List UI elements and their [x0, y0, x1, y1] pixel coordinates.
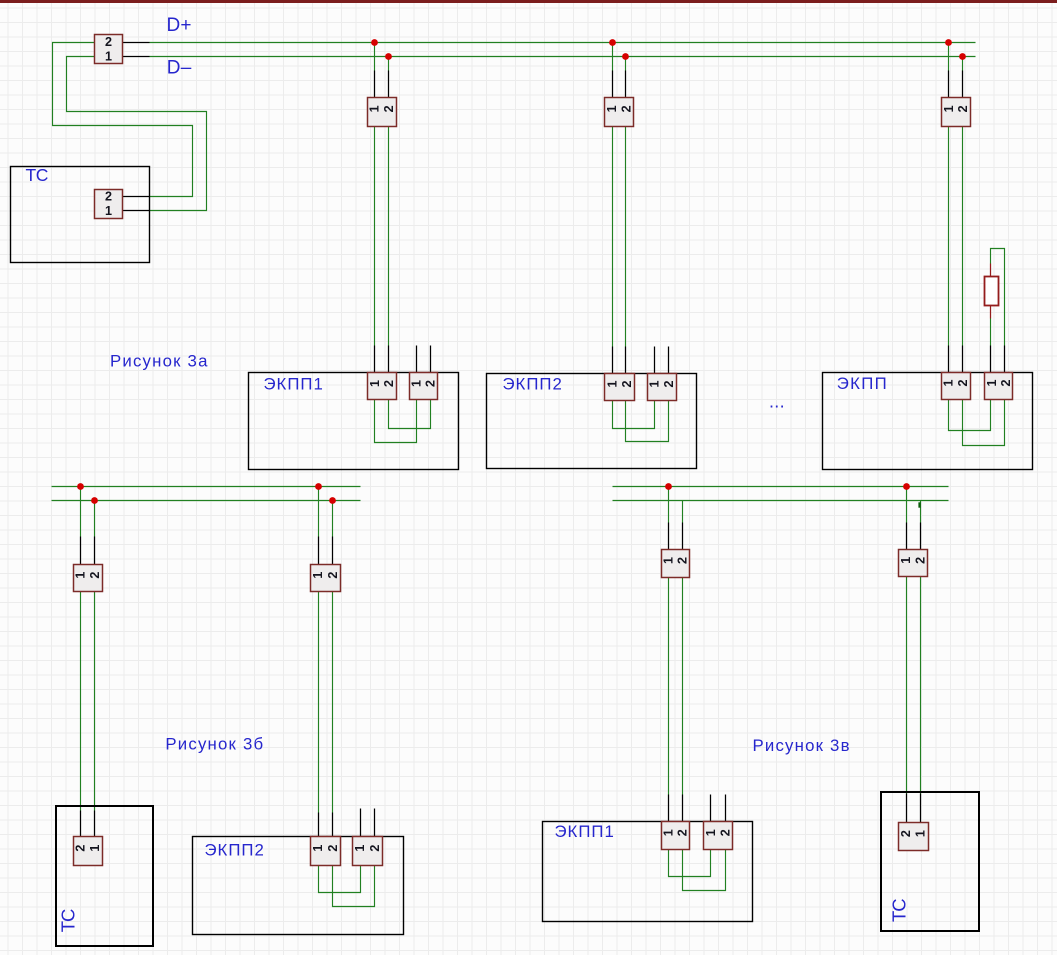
wire EKPP1-3v internal pin1-pin1 [669, 850, 711, 877]
svg-text:1: 1 [941, 379, 955, 386]
wire EKPP2-3b internal pin2-pin2 [333, 866, 375, 907]
stub EKPP1-3v lower pin2 [682, 795, 684, 822]
stub EKPP2-3b XB pin1 (open) [360, 809, 362, 837]
stub TC-3v lower pin2 [920, 794, 922, 823]
svg-text:1: 1 [661, 557, 675, 564]
box TC (figure 3v) [881, 792, 979, 931]
wire TC-3b drop wire1 [80, 487, 82, 537]
wire EKPP2 internal pin1-pin1 [613, 401, 655, 429]
svg-text:1: 1 [368, 380, 382, 387]
svg-text:2: 2 [105, 35, 112, 49]
svg-text:2: 2 [899, 830, 913, 837]
connector X1 (bus head) [95, 35, 123, 64]
connector EKPP2-XA inline [605, 98, 634, 127]
connector TC-3b connector [74, 837, 103, 866]
svg-text:1: 1 [899, 557, 913, 564]
connector EKPP1-3v XB [704, 822, 733, 850]
svg-text:2: 2 [105, 190, 112, 204]
svg-text:1: 1 [353, 845, 367, 852]
wire EKPP1-3v internal pin2-pin2 [683, 850, 726, 891]
svg-text:2: 2 [424, 380, 438, 387]
wire EKPP1-XA inline pin2 down [388, 127, 390, 346]
wire EKPP1 internal pin2-pin2 [389, 400, 431, 429]
junction dot bus1 EKPP2-3b [315, 483, 322, 490]
svg-text:2: 2 [676, 829, 690, 836]
wire drop D+ to EKPP2-XA inline connector [612, 43, 614, 71]
svg-text:ЭКПП2: ЭКПП2 [205, 841, 265, 860]
svg-text:1: 1 [661, 829, 675, 836]
wire drop D- to EKPP2-XA inline connector [625, 57, 627, 71]
stub EKPP1-3v lower pin1 [668, 795, 670, 822]
wire bus1 figure 3b [52, 486, 361, 488]
wire EKPP internal pin2-pin2 [963, 400, 1005, 446]
svg-text:1: 1 [648, 381, 662, 388]
box EKPP2 (figure 3b) [193, 837, 404, 935]
svg-text:ЭКПП1: ЭКПП1 [264, 375, 324, 394]
svg-text:ТС: ТС [58, 909, 79, 932]
wire resistor bottom lead to XB pin1 [990, 319, 992, 346]
pin stub EKPP-XA pin1 bottom [948, 346, 950, 373]
pin stub EKPP1-XA inline pin2 top [388, 71, 390, 98]
connector EKPP-XA [941, 373, 970, 400]
stub EKPP1-3v XB pin2 (open) [725, 795, 727, 822]
pin stubs of TC connector X2 [123, 197, 150, 211]
stub EKPP2 XB pin2 (open) [668, 347, 670, 374]
connector EKPP1-3v inline [661, 550, 689, 578]
svg-text:2: 2 [74, 845, 88, 852]
connector EKPP1-XB [410, 373, 438, 400]
box EKPP (figure 3a) [823, 373, 1033, 470]
resistor R1 leads [990, 264, 992, 319]
svg-text:1: 1 [605, 105, 619, 112]
svg-text:2: 2 [382, 105, 396, 112]
wire resistor top around to XB pin2 [991, 249, 1005, 346]
junction dot on D- at EKPP1-XA [385, 53, 392, 60]
wire TC-3b drop wire2 [94, 501, 96, 537]
svg-text:2: 2 [956, 105, 970, 112]
junction dot on D+ at EKPP2-XA [609, 39, 616, 46]
svg-text:2: 2 [913, 557, 927, 564]
connector EKPP-XB [985, 373, 1013, 400]
svg-text:ТС: ТС [889, 899, 910, 922]
svg-text:2: 2 [382, 380, 396, 387]
svg-text:1: 1 [74, 572, 88, 579]
wire EKPP2-3b long pin2 [332, 592, 334, 813]
connector TC-3v connector [899, 823, 929, 851]
box EKPP1 (figure 3a) [249, 373, 459, 470]
pin stub EKPP1-XA inline pin1 top [374, 71, 376, 98]
svg-text:1: 1 [368, 105, 382, 112]
wire X1 pin1 to TC connector pin1 [67, 57, 207, 211]
svg-text:1: 1 [105, 204, 112, 218]
stub EKPP1-3v wire1 upper [668, 523, 670, 550]
stub TC-3v wire2 upper [920, 523, 922, 550]
stub EKPP1-3v wire2 upper [682, 523, 684, 550]
pin stubs of connector X1 [123, 43, 150, 57]
wire EKPP1-3v drop wire1 [668, 487, 670, 523]
svg-text:2: 2 [676, 557, 690, 564]
pin stub EKPP1-XA pin1 bottom [374, 346, 376, 373]
junction dot bus2 TC-3b [91, 497, 98, 504]
svg-text:1: 1 [942, 105, 956, 112]
svg-text:D+: D+ [167, 15, 192, 36]
connector EKPP-XA inline [942, 98, 971, 127]
pin stub EKPP2-XA pin1 bottom [612, 347, 614, 374]
wire EKPP2-3b long pin1 [318, 592, 320, 813]
stub TC-3v wire1 upper [906, 523, 908, 550]
stub EKPP2-3b XB pin2 (open) [374, 809, 376, 837]
wire TC-3v long pin1 [906, 577, 908, 794]
connector EKPP2-XA [605, 374, 635, 401]
svg-text:D–: D– [167, 58, 192, 79]
svg-text:Рисунок 3б: Рисунок 3б [165, 735, 264, 754]
junction dot bus1 TC-3v [903, 483, 910, 490]
stub TC-3b wire2 upper [94, 537, 96, 565]
stub EKPP1-3v XB pin1 (open) [710, 795, 712, 822]
connector EKPP1-XA inline [368, 98, 397, 127]
svg-text:1: 1 [105, 49, 112, 63]
junction dot on D- at EKPP2-XA [622, 53, 629, 60]
stub EKPP2-3b wire1 upper [318, 537, 320, 565]
stub EKPP XB pin1 [990, 346, 992, 373]
box TC (figure 3b) [56, 806, 153, 946]
pin stub EKPP-XA pin2 bottom [962, 346, 964, 373]
top window border bar [0, 0, 1057, 3]
svg-text:2: 2 [719, 829, 733, 836]
svg-text:1: 1 [704, 829, 718, 836]
stub TC-3b lower pin1 [80, 811, 82, 837]
wire EKPP2-3b internal pin1-pin1 [319, 866, 361, 893]
svg-text:ТС: ТС [26, 165, 49, 185]
wire EKPP-XA inline pin1 down [948, 127, 950, 346]
wire D- bus [150, 56, 976, 58]
pin stub EKPP2-XA inline pin2 top [625, 71, 627, 98]
svg-text:2: 2 [620, 105, 634, 112]
pin stub EKPP-XA inline pin1 top [948, 71, 950, 98]
svg-text:2: 2 [662, 381, 676, 388]
box TC (figure 3a) [11, 167, 150, 263]
connector EKPP2-3b XB [353, 837, 383, 866]
wire D+ bus [150, 42, 976, 44]
junction dot bus1 TC-3b [77, 483, 84, 490]
wire EKPP2-3b drop wire1 [318, 487, 320, 537]
connector X2 (inside TC) [95, 190, 123, 219]
svg-text:ЭКПП2: ЭКПП2 [503, 375, 563, 394]
stub EKPP2-3b wire2 upper [332, 537, 334, 565]
connector EKPP1-XA [368, 373, 397, 400]
wire drop D+ to EKPP-XA inline connector [948, 43, 950, 71]
pin stub EKPP2-XA pin2 bottom [625, 347, 627, 374]
stub EKPP2 XB pin1 (open) [654, 347, 656, 374]
wire X1 pin2 to TC connector pin2 [53, 43, 193, 197]
wire TC-3v drop wire1 [906, 487, 908, 523]
wire EKPP2-3b drop wire2 [332, 501, 334, 537]
svg-text:2: 2 [326, 572, 340, 579]
wire EKPP2-XA inline pin2 down [625, 127, 627, 347]
wire EKPP1-3v long pin1 [668, 578, 670, 795]
wire TC-3v long pin2 [920, 577, 922, 794]
wire drop D- to EKPP-XA inline connector [962, 57, 964, 71]
svg-text:2: 2 [368, 845, 382, 852]
box EKPP1 (figure 3v) [543, 822, 753, 922]
svg-text:Рисунок 3в: Рисунок 3в [753, 736, 851, 755]
wire EKPP2 internal pin2-pin2 [626, 401, 669, 442]
wire drop D- to EKPP1-XA inline connector [388, 57, 390, 71]
svg-text:1: 1 [914, 830, 928, 837]
stub TC-3b lower pin2 [94, 811, 96, 837]
svg-text:...: ... [769, 392, 785, 412]
wire TC-3v drop wire2 [920, 501, 922, 523]
svg-text:ЭКПП: ЭКПП [837, 374, 888, 393]
box EKPP2 (figure 3a) [487, 374, 697, 469]
junction dot bus1 EKPP1-3v [665, 483, 672, 490]
junction dot on D+ at EKPP-XA [945, 39, 952, 46]
connector EKPP1-3v XA [661, 822, 689, 850]
wire EKPP internal pin1-pin1 [949, 400, 991, 431]
svg-text:ЭКПП1: ЭКПП1 [555, 822, 615, 841]
svg-text:Рисунок 3а: Рисунок 3а [110, 351, 209, 370]
stub EKPP2-3b lower pin1 [318, 813, 320, 837]
svg-text:1: 1 [311, 845, 325, 852]
junction dot on D- at EKPP-XA [959, 53, 966, 60]
stub EKPP XB pin2 [1004, 346, 1006, 373]
svg-text:1: 1 [605, 381, 619, 388]
svg-text:2: 2 [88, 572, 102, 579]
wire EKPP1-3v long pin2 [682, 578, 684, 795]
pin stub EKPP-XA inline pin2 top [962, 71, 964, 98]
pin stub EKPP2-XA inline pin1 top [612, 71, 614, 98]
pin stub EKPP1-XA pin2 bottom [388, 346, 390, 373]
connector EKPP2-3b XA [311, 837, 341, 866]
svg-text:1: 1 [410, 380, 424, 387]
wire bus2 figure 3b [52, 500, 361, 502]
junction dot bus2 EKPP2-3b [329, 497, 336, 504]
connector EKPP2-3b inline [311, 565, 341, 592]
wire EKPP1-XA inline pin1 down [374, 127, 376, 346]
resistor R1 body [985, 277, 999, 306]
junction dot on D+ at EKPP1-XA [371, 39, 378, 46]
svg-text:1: 1 [985, 379, 999, 386]
wire drop D+ to EKPP1-XA inline connector [374, 43, 376, 71]
connector TC-3v inline [899, 550, 928, 577]
svg-text:1: 1 [311, 572, 325, 579]
svg-text:1: 1 [88, 845, 102, 852]
svg-text:2: 2 [326, 845, 340, 852]
wire TC-3b long pin2 [94, 592, 96, 811]
stub EKPP1 XB pin2 (open) [430, 346, 432, 373]
svg-text:2: 2 [999, 379, 1013, 386]
stub TC-3v lower pin1 [906, 794, 908, 823]
stub TC-3b wire1 upper [80, 537, 82, 565]
connector EKPP2-XB [648, 374, 677, 401]
wire EKPP2-XA inline pin1 down [612, 127, 614, 347]
wire EKPP1-3v drop wire2 [682, 501, 684, 523]
wire TC-3b long pin1 [80, 592, 82, 811]
wire bus2 figure 3v [613, 500, 949, 502]
connector TC-3b inline [74, 565, 103, 592]
svg-text:2: 2 [956, 379, 970, 386]
stub EKPP2-3b lower pin2 [332, 813, 334, 837]
artifact tick near TC-3v wire2 [918, 502, 920, 507]
wire EKPP1 internal pin1-pin1 [375, 400, 417, 443]
wire bus1 figure 3v [613, 486, 949, 488]
stub EKPP1 XB pin1 (open) [416, 346, 418, 373]
svg-text:2: 2 [620, 381, 634, 388]
wire EKPP-XA inline pin2 down [962, 127, 964, 346]
